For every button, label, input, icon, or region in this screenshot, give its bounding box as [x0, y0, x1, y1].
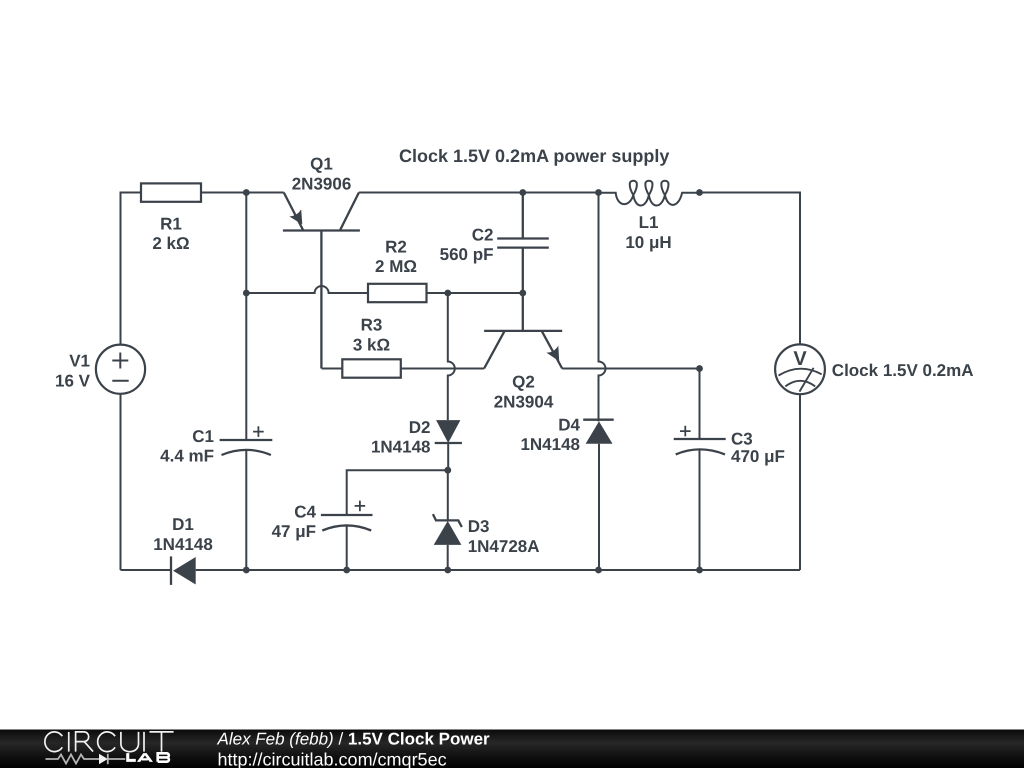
svg-text:1N4148: 1N4148: [520, 435, 580, 454]
svg-text:Q1: Q1: [310, 155, 333, 174]
node R2 right junction: [444, 290, 451, 297]
capacitor C3: [674, 439, 726, 454]
svg-text:2N3904: 2N3904: [494, 393, 554, 412]
svg-text:http://circuitlab.com/cmqr5ec: http://circuitlab.com/cmqr5ec: [218, 750, 447, 768]
logo CIRCUIT wordmark: [45, 732, 174, 752]
logo diode triangle: [99, 754, 108, 764]
node D4 bottom junction: [595, 567, 602, 574]
node Q2 emitter row junction: [696, 365, 703, 372]
svg-text:2 kΩ: 2 kΩ: [152, 234, 189, 253]
wire R2 to C2 node: [427, 292, 523, 294]
node L1 right junction: [696, 189, 703, 196]
resistor R3: [342, 359, 401, 377]
wire R1 to Q1: [201, 192, 284, 194]
voltmeter V probe: [775, 344, 825, 394]
wire D4 to bottom rail: [598, 420, 601, 570]
svg-text:1N4728A: 1N4728A: [468, 537, 540, 556]
svg-text:L1: L1: [639, 213, 659, 232]
node C3 bottom junction: [696, 567, 703, 574]
wire D3 to bottom rail: [447, 545, 449, 570]
wire bottom rail: [121, 569, 801, 571]
svg-text:R2: R2: [385, 238, 407, 257]
wire row2 from x246 with hop over Q1 base: [246, 286, 368, 293]
wire vertical x246 top to row2: [245, 193, 247, 294]
wire x246 row2 to C1: [245, 293, 247, 440]
wire C3 to bottom rail: [699, 449, 701, 570]
wire C4 to bottom rail: [346, 525, 348, 570]
node row2 left junction: [243, 290, 250, 297]
svg-text:1N4148: 1N4148: [153, 535, 213, 554]
svg-text:D4: D4: [558, 416, 580, 435]
node C1 bottom junction: [243, 567, 250, 574]
capacitor C1: [220, 440, 273, 455]
node L1 left junction: [595, 189, 602, 196]
transistor Q2: [484, 293, 562, 369]
node D2-D3 junction: [444, 467, 451, 474]
wire node to C4: [347, 470, 448, 515]
svg-text:V1: V1: [69, 352, 90, 371]
wire D2 to node: [447, 443, 449, 470]
node C4 bottom junction: [343, 567, 350, 574]
capacitor C4: [321, 515, 373, 531]
wire vertical x598 with hop over row3: [599, 193, 606, 420]
svg-text:D2: D2: [409, 418, 431, 437]
node C2 top junction: [519, 189, 526, 196]
svg-text:C1: C1: [192, 427, 214, 446]
svg-text:1N4148: 1N4148: [371, 438, 431, 457]
svg-text:470 μF: 470 μF: [731, 447, 785, 466]
svg-text:C2: C2: [472, 226, 494, 245]
zener diode D3: [433, 514, 462, 527]
resistor R1: [141, 183, 201, 201]
wire top rail left segment: [121, 193, 142, 345]
svg-text:2 MΩ: 2 MΩ: [375, 257, 417, 276]
wire Q2 emitter to node x699: [562, 368, 699, 370]
svg-text:V: V: [793, 348, 807, 370]
svg-text:D1: D1: [172, 515, 194, 534]
logo resistor-diode symbol: [46, 754, 126, 764]
wire node to D3: [447, 470, 449, 521]
diode D2: [436, 420, 460, 443]
node Q2 base junction: [519, 290, 526, 297]
wire vertical x699 row3 to C3: [699, 369, 701, 440]
svg-text:47 μF: 47 μF: [272, 522, 316, 541]
diode D4: [583, 419, 614, 421]
logo LAB text: [126, 753, 169, 762]
svg-text:R1: R1: [160, 215, 182, 234]
wire top rail C2 to L1: [523, 192, 599, 194]
svg-text:Clock 1.5V 0.2mA power supply: Clock 1.5V 0.2mA power supply: [399, 146, 669, 166]
svg-text:C4: C4: [294, 503, 316, 522]
svg-text:16 V: 16 V: [55, 372, 91, 391]
wire V1 left rail: [120, 394, 122, 570]
svg-text:Alex Feb (febb) / 1.5V Clock P: Alex Feb (febb) / 1.5V Clock Power: [217, 730, 491, 749]
svg-text:3 kΩ: 3 kΩ: [353, 336, 390, 355]
svg-text:560 pF: 560 pF: [440, 245, 494, 264]
wire R3 to Q2: [401, 368, 484, 370]
resistor R2: [368, 284, 427, 302]
capacitor C2: [497, 193, 549, 294]
node D3 bottom junction: [444, 567, 451, 574]
node R1-Q1 junction: [243, 189, 250, 196]
diode D1: [170, 556, 172, 585]
svg-text:10 μH: 10 μH: [625, 233, 671, 252]
transistor Q1: [283, 193, 360, 369]
wire C1 to bottom rail: [245, 450, 247, 570]
svg-text:2N3906: 2N3906: [292, 175, 352, 194]
svg-text:Clock 1.5V 0.2mA: Clock 1.5V 0.2mA: [832, 361, 974, 380]
svg-text:C3: C3: [731, 430, 753, 449]
svg-text:D3: D3: [468, 517, 490, 536]
svg-text:Q2: Q2: [512, 373, 535, 392]
voltage source V1: [96, 345, 145, 394]
svg-text:4.4 mF: 4.4 mF: [160, 447, 214, 466]
wire Q1 base corner to R3: [322, 368, 343, 370]
wire Q1 collector to top rail: [359, 192, 523, 194]
inductor L1: [599, 181, 699, 206]
wire voltmeter bottom: [799, 394, 801, 570]
wire top rail right corner: [700, 193, 801, 345]
footer bar: [0, 730, 1024, 768]
wire vertical x448 row2 to D2 with hop over row3: [448, 293, 455, 420]
svg-text:R3: R3: [361, 316, 383, 335]
